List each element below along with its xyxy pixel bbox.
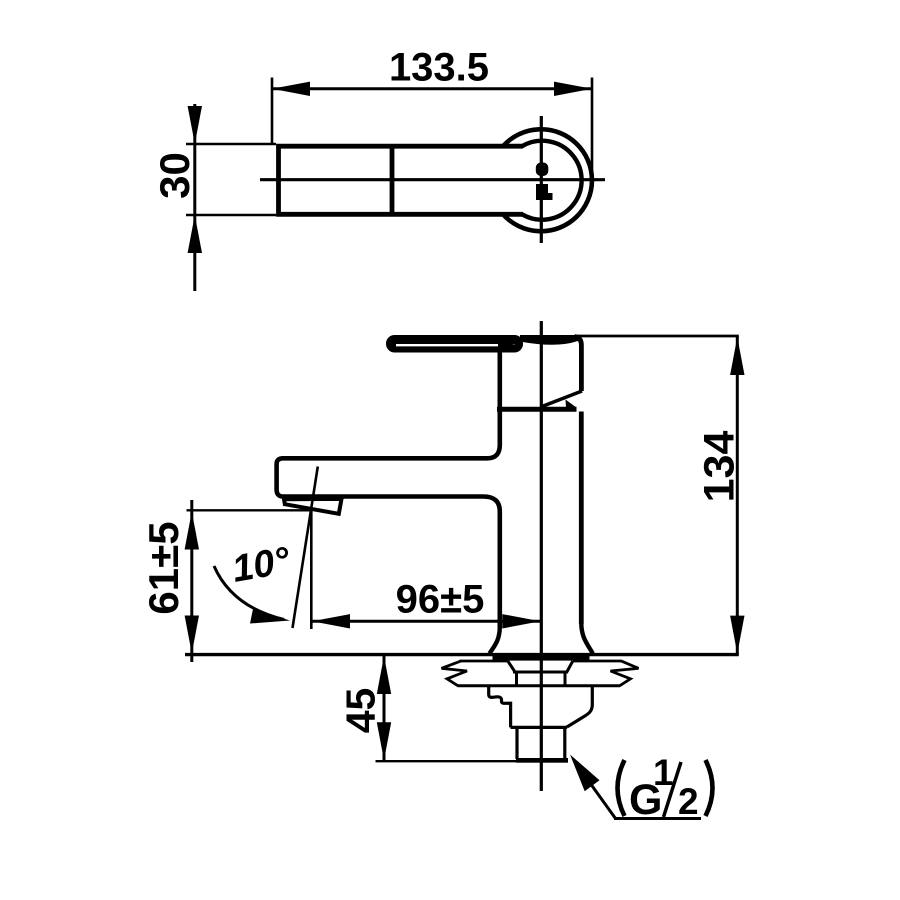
svg-text:45: 45 [338,688,384,734]
head right edge with corner [575,337,582,392]
dim 61 bottom arrow (down) [185,616,199,654]
dim 30 text (rotated) [151,152,198,199]
G1/2 fraction slash [664,762,682,817]
svg-text:1: 1 [653,752,674,793]
61 extension line [187,509,311,511]
slab bottom line [458,684,621,687]
top view horizontal centerline [260,178,605,181]
main vertical centerline [540,321,543,791]
lever bar (side view, filled) [386,335,523,353]
under-slab right profile with chamfer [567,686,593,727]
center screw mark lower [536,184,553,200]
under-slab left hook profile [489,686,511,728]
dim 133.5 left extension line [271,78,274,144]
base flare right [581,623,593,654]
10 degree text [229,539,294,590]
handle bottom extension line [186,214,276,216]
dim 134 shaft [736,336,739,655]
dim 134 top extension line [575,335,739,338]
nut right edge [563,727,566,759]
small triangle detail under head [566,400,577,408]
head bottom slant line [542,391,582,407]
dim 96+-5 text [396,578,485,622]
svg-text:96±5: 96±5 [396,578,485,622]
nut bottom bar [516,758,568,763]
dim 45 top arrow (up) [377,656,391,694]
dim 61+-5 text (rotated) [140,521,187,614]
dim 61 shaft [190,500,193,662]
dim 133.5 right extension line [591,78,594,191]
dim 134 text (rotated) [696,431,744,503]
dim 45 bottom extension line [376,760,517,762]
nut left edge [515,727,518,759]
outer circle of lever end [503,129,592,231]
dim 96 left arrow [312,614,350,628]
handle top extension line [186,143,276,145]
base gasket bar [493,655,590,661]
dim 96 right arrow [502,614,540,628]
lever-body junction fillet [498,343,523,349]
dim 30 shaft [193,104,196,291]
body left edge + spout outline [277,350,500,628]
slab top line left [460,660,509,663]
body right edge [579,412,584,625]
washer bottom line [513,671,568,674]
dim 134 top arrow (up) [730,337,744,375]
dim 61 top arrow (up) [185,512,199,550]
inner circle of lever end [522,141,582,220]
dim 96 line [311,620,540,623]
dim 133.5 right arrow [554,82,592,96]
dim 134 bottom arrow (down) [730,616,744,654]
dim 30 top arrow (pointing down) [188,106,202,144]
G1/2 close parenthesis [706,760,713,816]
G1/2 open parenthesis [618,760,625,816]
G1/2 label text [629,752,699,824]
washer left slant [508,661,515,672]
vertical reference line at spout tip [310,510,313,630]
lever bar white stripe [396,344,515,346]
svg-text:133.5: 133.5 [389,46,489,90]
lever divider line [390,146,395,214]
dim 30 bottom arrow (pointing up) [188,215,202,253]
svg-text:10°: 10° [229,539,294,590]
head top sag arc [520,340,576,343]
dim 45 text (rotated) [338,688,384,734]
nozzle (aerator) tilted outline [284,499,342,514]
shank right vertical [564,672,567,686]
svg-text:61±5: 61±5 [140,521,187,614]
collar bar [497,407,577,412]
10 degree slanted line [293,467,318,629]
slab right break zigzag [611,661,639,686]
counter top line [185,653,739,656]
lever handle outline (top view) [279,146,524,214]
G1/2 leader line [585,776,616,819]
dim 133.5 text [389,46,489,90]
G1/2 leader arrowhead [570,755,600,792]
angle arc [214,566,284,620]
dim 45 bottom arrow (down) [377,722,391,760]
nut top line [511,726,568,729]
head top edge thick band [520,335,580,341]
angle arc arrowhead [250,609,290,624]
top view vertical centerline [540,116,543,243]
base flare left [490,627,500,654]
svg-text:2: 2 [678,781,699,822]
svg-text:30: 30 [151,152,198,199]
dim 133.5 left arrow [272,82,310,96]
washer right slant [567,661,573,672]
slab top line right [573,660,622,663]
dim 133.5 line [272,87,592,90]
shank left vertical [515,672,518,686]
slab left break zigzag [442,661,468,686]
G1/2 underline [614,817,701,820]
center screw mark upper [536,163,549,177]
dim 45 shaft [383,655,386,761]
